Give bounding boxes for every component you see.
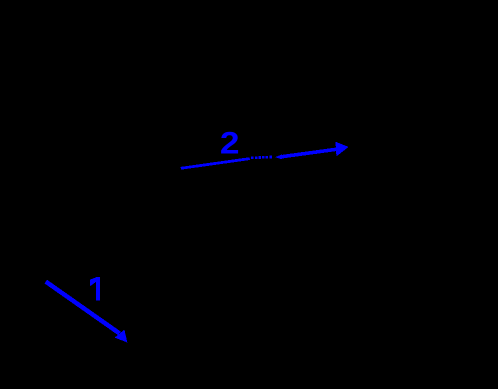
svg-text:2: 2	[220, 126, 240, 161]
